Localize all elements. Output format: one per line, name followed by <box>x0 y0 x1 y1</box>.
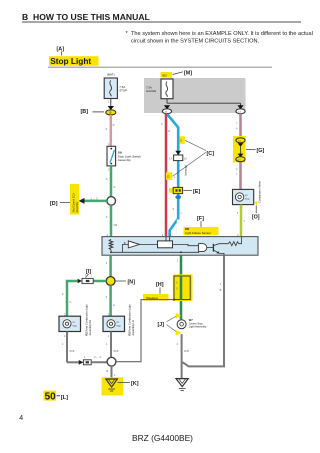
svg-text:3: 3 <box>114 373 116 377</box>
svg-text:Combination Meter: Combination Meter <box>258 181 262 203</box>
svg-text:BRZ (G4400BE): BRZ (G4400BE) <box>132 433 193 443</box>
svg-text:L: L <box>174 175 176 179</box>
svg-text:The system shown here is an EX: The system shown here is an EXAMPLE ONLY… <box>131 31 313 37</box>
svg-text:[A]: [A] <box>57 47 65 53</box>
svg-text:5: 5 <box>62 292 64 296</box>
svg-text:[C]: [C] <box>207 151 215 157</box>
svg-text:[K]: [K] <box>131 381 139 387</box>
svg-text:Stop: Stop <box>72 324 77 327</box>
svg-text:3 ← 4: 3 ← 4 <box>94 355 101 359</box>
svg-text:Assembly: Assembly <box>118 158 132 162</box>
svg-text:7: 7 <box>236 122 238 126</box>
svg-text:4: 4 <box>220 282 222 286</box>
svg-text:1: 1 <box>62 342 64 346</box>
svg-text:6: 6 <box>106 215 108 219</box>
svg-text:3: 3 <box>106 261 108 265</box>
svg-text:B: B <box>107 369 109 373</box>
svg-text:4: 4 <box>237 211 239 215</box>
svg-text:Light Failure Sensor: Light Failure Sensor <box>185 231 211 235</box>
svg-text:[D]: [D] <box>50 201 58 207</box>
svg-text:[O]: [O] <box>252 214 260 220</box>
svg-text:R: R <box>113 123 115 127</box>
svg-text:1A: 1A <box>169 156 172 160</box>
svg-text:1: 1 <box>84 355 86 359</box>
svg-text:(BAT): (BAT) <box>107 73 115 77</box>
svg-text:[N]: [N] <box>128 280 136 286</box>
svg-text:2 ← 3: 2 ← 3 <box>91 196 98 200</box>
svg-text:[J]: [J] <box>158 322 165 328</box>
svg-text:G: G <box>113 185 115 189</box>
svg-text:[L]: [L] <box>61 395 68 401</box>
svg-text:Stop Light: Stop Light <box>50 56 91 66</box>
svg-text:[M]: [M] <box>184 71 192 77</box>
svg-text:Stop: Stop <box>245 197 250 200</box>
svg-text:6: 6 <box>106 177 108 181</box>
svg-text:G: G <box>176 287 178 291</box>
svg-text:(Shielded): (Shielded) <box>184 165 187 176</box>
svg-text:6: 6 <box>106 127 108 131</box>
svg-text:G: G <box>69 300 71 304</box>
svg-text:G: G <box>113 303 115 307</box>
svg-text:1: 1 <box>64 334 66 338</box>
svg-text:GB: GB <box>113 223 117 227</box>
svg-text:1: 1 <box>177 259 179 263</box>
svg-text:W-B: W-B <box>113 349 118 353</box>
svg-text:4: 4 <box>177 342 179 346</box>
svg-text:4: 4 <box>236 167 238 171</box>
svg-text:[E]: [E] <box>193 189 200 195</box>
svg-text:1 2: 1 2 <box>108 99 112 103</box>
svg-text:5: 5 <box>173 207 175 211</box>
svg-text:[F]: [F] <box>197 216 204 222</box>
svg-text:1B: 1B <box>109 112 112 115</box>
svg-text:4: 4 <box>19 415 23 422</box>
svg-text:Assembly LH: Assembly LH <box>131 320 135 335</box>
svg-text:[B]: [B] <box>81 109 89 115</box>
svg-text:Y: Y <box>243 219 245 223</box>
svg-text:1: 1 <box>106 342 108 346</box>
svg-text:Light Assembly: Light Assembly <box>189 324 207 328</box>
svg-text:B15: B15 <box>163 74 168 77</box>
svg-text:W-B: W-B <box>69 349 74 353</box>
svg-text:5: 5 <box>106 295 108 299</box>
svg-text:1 ← 1: 1 ← 1 <box>85 274 92 278</box>
svg-text:2: 2 <box>108 167 110 171</box>
svg-text:7: 7 <box>236 172 238 176</box>
svg-text:[H]: [H] <box>156 282 164 288</box>
svg-text:3: 3 <box>161 122 163 126</box>
svg-text:B HOW TO USE THIS MANUAL: B HOW TO USE THIS MANUAL <box>22 12 150 22</box>
svg-text:Assembly: Assembly <box>76 201 79 213</box>
svg-text:circuit shown in the SYSTEM CI: circuit shown in the SYSTEM CIRCUITS SEC… <box>131 39 260 45</box>
svg-text:L: L <box>181 211 183 215</box>
svg-text:Stop: Stop <box>116 324 121 327</box>
svg-text:1: 1 <box>108 334 110 338</box>
svg-text:Assembly RH: Assembly RH <box>88 320 92 336</box>
svg-text:W-B: W-B <box>184 349 189 353</box>
svg-text:STOP: STOP <box>119 89 127 93</box>
svg-text:GAUGE: GAUGE <box>146 89 156 93</box>
svg-text:*: * <box>126 31 129 37</box>
svg-text:[G]: [G] <box>257 148 265 154</box>
svg-text:B: B <box>220 288 222 292</box>
svg-text:4: 4 <box>236 127 238 131</box>
svg-text:1A: 1A <box>184 156 187 160</box>
svg-text:50: 50 <box>45 391 57 402</box>
svg-text:R: R <box>168 129 170 133</box>
